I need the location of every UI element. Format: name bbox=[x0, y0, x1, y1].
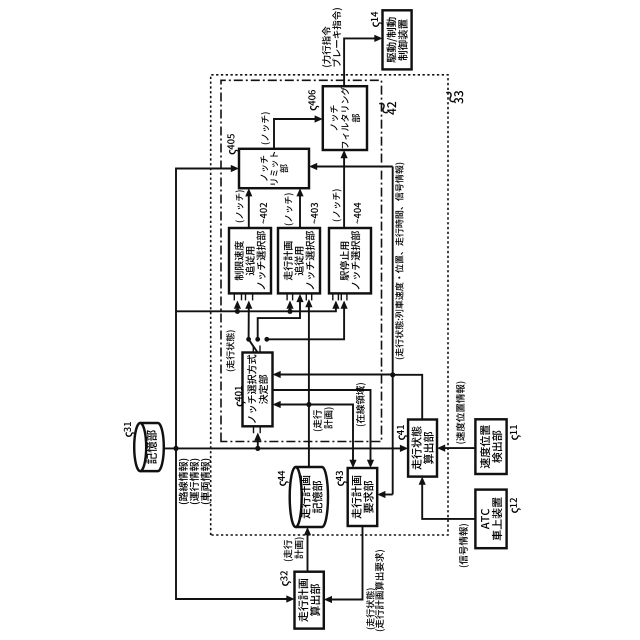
label 12 bbox=[510, 498, 521, 513]
label 14 bbox=[371, 12, 382, 27]
label 405 bbox=[227, 134, 238, 154]
junction dot selector bus to 402 bbox=[235, 309, 240, 314]
label (走行計画算出要求) bbox=[375, 550, 385, 631]
label (走行状態) under 43 line bbox=[366, 588, 375, 629]
switch contact dot 1 bbox=[246, 337, 251, 342]
wire 406 output to 14 (力行指令、ブレーキ指令) bbox=[344, 35, 382, 86]
label (走行 line1 bbox=[283, 540, 293, 561]
wire travel-plan branch down to 43 right edge bbox=[309, 405, 357, 469]
cylinder 31 storage unit 記憶部 bbox=[134, 423, 164, 471]
label 11 bbox=[510, 425, 521, 440]
wire contact3 to 404 lower stub bbox=[267, 301, 348, 340]
box 404 station-stop notch selection unit 駅停止用ノッチ選択部 bbox=[329, 228, 371, 293]
label (速度位置情報) bbox=[456, 382, 466, 444]
label travel-state long (走行状態:列車速度・位置、走行時間、信号情報) bbox=[395, 163, 404, 359]
label (ノッチ) on 402 output bbox=[235, 190, 244, 222]
label ブレーキ指令) line2 bbox=[332, 8, 342, 66]
label 32 bbox=[280, 571, 291, 586]
cylinder 44 travel-plan storage unit 走行計画記憶部 bbox=[290, 467, 328, 527]
wire 401 output down to 43 right edge (在線領域) bbox=[273, 390, 375, 468]
label (力行指令 line1 bbox=[322, 27, 332, 67]
label 計画) near travel-plan dot bbox=[324, 407, 334, 428]
switch contact dot 2 bbox=[255, 337, 260, 342]
wire bus to 402 upper stub bbox=[234, 301, 241, 312]
wire 12 to 41 left edge (信号情報) bbox=[419, 477, 476, 519]
box 402 speed-limit following notch selection unit 制限速度追従用ノッチ選択部 bbox=[229, 228, 271, 293]
wire bus feed to 401 left stub bbox=[254, 433, 261, 449]
label ~402 bbox=[260, 203, 267, 224]
label ~33 with leader squiggle bbox=[444, 91, 463, 104]
wire 11 up to 41 bottom (速度位置情報) bbox=[437, 445, 475, 452]
junction dot travel-state net bbox=[390, 372, 395, 377]
label (在線領域) bbox=[356, 383, 366, 426]
label (信号情報) bbox=[459, 524, 469, 567]
label ~403 bbox=[311, 203, 318, 224]
wire 403 output to 405 (ノッチ) bbox=[296, 188, 303, 228]
junction dot selector bus to 403 bbox=[287, 309, 292, 314]
wire contact2 to 403 bottom-center bbox=[258, 294, 304, 339]
stub 404 upper-left bbox=[333, 293, 339, 300]
stub 401 left bbox=[254, 426, 261, 433]
box 12 ATC onboard device ATC車上装置 bbox=[475, 490, 506, 549]
wire travel-plan branch up to 401 bottom bbox=[273, 401, 309, 408]
label 計画) line2 bbox=[294, 537, 304, 558]
label (走行 near travel-plan dot bbox=[313, 410, 323, 431]
dashed boundary box 33 (automatic train operation device) bbox=[211, 75, 448, 535]
wire 32 to 44 travel plan bbox=[304, 527, 311, 572]
box 11 speed-position detection unit 速度位置検出部 bbox=[475, 419, 506, 474]
dash-dot boundary box 42 (notch determination unit) bbox=[221, 80, 382, 441]
wire selector bus from horizontal feed down to 404 upper stub bbox=[176, 301, 340, 312]
stub 402 lower-left bbox=[246, 293, 253, 300]
box 14 drive/brake control device 駆動/制動制御装置 bbox=[383, 10, 412, 69]
label 運行情報 line2 bbox=[190, 459, 200, 504]
wire bus to 403 upper stub bbox=[286, 301, 293, 312]
wire 405 output to 406 top (ノッチ) bbox=[274, 115, 323, 148]
box 406 notch filtering unit ノッチフィルタリング部 bbox=[323, 86, 367, 150]
label 41 bbox=[397, 425, 408, 440]
stub 403 upper-left bbox=[287, 293, 293, 300]
wire from storage 31 down to 41 (route/operation/vehicle info bus) bbox=[164, 445, 408, 452]
label (走行状態) near switch bbox=[226, 330, 235, 371]
label 路線情報 line1 bbox=[179, 459, 189, 504]
label 31 bbox=[124, 422, 135, 437]
wire 404 output to 406 (ノッチ) bbox=[341, 150, 348, 228]
label 406 bbox=[308, 90, 319, 110]
label ~404 bbox=[354, 203, 361, 224]
box 401 notch selection method determination unit ノッチ選択方式決定部 bbox=[243, 353, 273, 427]
wire contact1 to 402 lower stub bbox=[245, 301, 252, 340]
label 車両情報 line3 bbox=[201, 459, 211, 504]
label 44 bbox=[278, 471, 289, 486]
wire long horizontal from bus to 405 top and to 32 top bbox=[176, 165, 295, 603]
label (ノッチ) on 405 output bbox=[261, 112, 270, 144]
label ~42 with leader squiggle bbox=[377, 102, 396, 115]
switch arm from 401 right stub to contact 1 bbox=[249, 339, 258, 352]
switch contact dot 3 bbox=[264, 337, 269, 342]
wire 402 output to 405 (ノッチ) bbox=[245, 188, 252, 228]
box 43 travel-plan request unit 走行計画要求部 bbox=[348, 468, 378, 526]
stub 402 upper-left bbox=[234, 293, 241, 300]
junction dot bus/branch-32-405 bbox=[173, 446, 178, 451]
box 403 travel-plan following notch selection unit 走行計画追従用ノッチ選択部 bbox=[278, 228, 320, 293]
label (ノッチ) on 403 output bbox=[284, 193, 293, 225]
stub 404 lower-left bbox=[341, 293, 347, 300]
junction dot bus/401 feed bbox=[255, 446, 260, 451]
box 405 notch limit unit ノッチリミット部 bbox=[239, 149, 309, 188]
label 401 bbox=[235, 386, 246, 406]
label (ノッチ) on 404 output bbox=[332, 189, 341, 221]
wire 44 to travel-plan net with dot, to 403 lower stub bbox=[305, 299, 312, 467]
junction dot travel-plan net bbox=[306, 402, 311, 407]
stub 401 right bbox=[253, 346, 260, 353]
wire 43 output down to 32 bbox=[324, 526, 363, 603]
wire travel-state net: 41 top to dot to 405/43/401 bbox=[273, 163, 423, 498]
box 41 travel-state calculation unit 走行状態算出部 bbox=[408, 420, 437, 477]
stub 403 lower-left bbox=[306, 293, 311, 300]
label 43 bbox=[336, 471, 347, 486]
box 32 travel-plan calculation unit 走行計画算出部 bbox=[295, 572, 324, 629]
